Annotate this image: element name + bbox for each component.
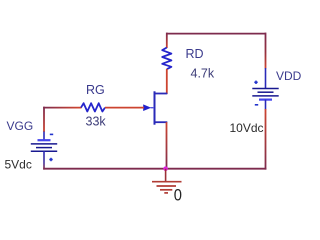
- label 0 (ground net): [174, 186, 182, 205]
- wire: bottom rail: [43, 168, 266, 170]
- polarity plus of VGG: [49, 158, 52, 161]
- svg-text:4.7k: 4.7k: [191, 67, 215, 81]
- wire: left vertical from corner down to VGG: [43, 107, 45, 132]
- polarity minus of VDD: [255, 104, 258, 106]
- svg-text:VGG: VGG: [7, 119, 34, 133]
- svg-text:RG: RG: [86, 83, 105, 97]
- wire: top rail from RD to VDD: [167, 33, 266, 35]
- svg-text:33k: 33k: [86, 115, 107, 129]
- ground symbol 0: [152, 182, 182, 193]
- value 10Vdc: [230, 121, 264, 135]
- wire: gate net from left corner to RG: [43, 107, 81, 109]
- voltage source VGG (battery, rotated 180): [31, 132, 57, 170]
- junction dot: [163, 166, 168, 171]
- wire: ground stem: [165, 169, 167, 182]
- wire: RG to gate arrow: [105, 107, 144, 109]
- value 4.7k: [191, 67, 215, 81]
- svg-text:RD: RD: [186, 47, 204, 61]
- label RD: [186, 47, 204, 61]
- value 5Vdc: [5, 158, 32, 172]
- svg-text:10Vdc: 10Vdc: [230, 121, 264, 135]
- voltage source VDD (battery): [252, 68, 278, 110]
- resistor RG (horizontal zigzag): [81, 103, 105, 111]
- wire: VDD bottom pin down to bottom rail: [265, 109, 267, 170]
- resistor RD (vertical zigzag): [162, 48, 171, 70]
- label VDD: [276, 69, 302, 83]
- polarity plus of VDD: [254, 81, 257, 84]
- wire: right vertical from top rail down to VDD: [265, 33, 267, 69]
- polarity minus of VGG: [50, 133, 53, 135]
- label VGG: [7, 119, 34, 133]
- value 33k: [86, 115, 107, 129]
- wire: RD bottom pin down to drain: [166, 69, 168, 94]
- svg-text:5Vdc: 5Vdc: [5, 158, 32, 172]
- label RG: [86, 83, 105, 97]
- svg-text:0: 0: [174, 186, 182, 205]
- transistor (NMOS): gate bar, drain/source stubs, gate arrow: [143, 91, 167, 124]
- svg-text:VDD: VDD: [276, 69, 302, 83]
- wire: RD top pin (corner down to resistor): [166, 33, 168, 48]
- wire: source pin down to bottom rail: [166, 122, 168, 169]
